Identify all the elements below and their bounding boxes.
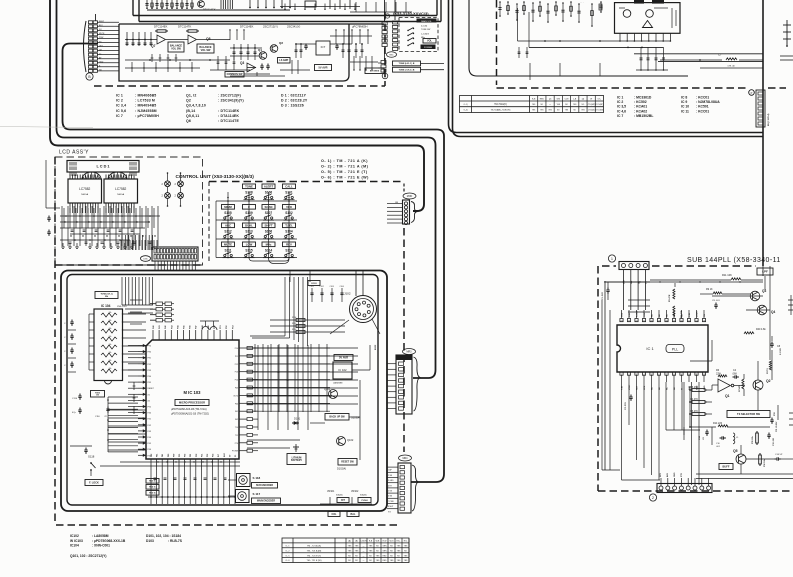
svg-text:DTC114TK: DTC114TK xyxy=(178,25,191,29)
svg-text:S 117: S 117 xyxy=(253,492,261,496)
svg-text:4-5 (B): 4-5 (B) xyxy=(421,26,427,28)
svg-text:: KC501: : KC501 xyxy=(696,105,709,109)
svg-text:GRN: GRN xyxy=(383,550,388,552)
svg-text:P11: P11 xyxy=(235,356,238,358)
svg-text:K-OUT: K-OUT xyxy=(637,310,639,317)
svg-text:O-4): O-4) xyxy=(464,110,468,112)
svg-text:O- 1) : TM - 721 A (K): O- 1) : TM - 721 A (K) xyxy=(321,159,368,163)
svg-text:IC 9: IC 9 xyxy=(681,100,687,104)
svg-text:J102: J102 xyxy=(344,292,351,296)
svg-text:: RLB-7S: : RLB-7S xyxy=(168,539,183,543)
svg-text:TONE SW: TONE SW xyxy=(421,29,430,31)
svg-text:10k: 10k xyxy=(109,328,112,330)
svg-text:P81: P81 xyxy=(148,358,151,360)
svg-text:B103: B103 xyxy=(375,344,377,350)
svg-text:IC 1: IC 1 xyxy=(646,346,654,351)
svg-text:: DTC114EK: : DTC114EK xyxy=(218,109,240,113)
svg-text:: XNN-C001: : XNN-C001 xyxy=(92,544,110,548)
svg-text:R53 1k: R53 1k xyxy=(149,481,156,483)
svg-text:RIT: RIT xyxy=(341,500,345,502)
svg-text:(A): (A) xyxy=(348,540,351,543)
svg-text:.068: .068 xyxy=(732,373,737,376)
svg-text:: NJM4558M: : NJM4558M xyxy=(135,109,157,113)
svg-text:: MN4094B5: : MN4094B5 xyxy=(135,104,156,108)
svg-text:B5 (7-620-4): B5 (7-620-4) xyxy=(767,113,770,126)
svg-text:Q1: Q1 xyxy=(258,48,262,52)
svg-text:3 GND: 3 GND xyxy=(388,480,394,482)
svg-text:10k: 10k xyxy=(109,352,112,354)
svg-text:21: 21 xyxy=(643,320,645,322)
svg-text:AFO: AFO xyxy=(99,24,103,27)
svg-text:GM: GM xyxy=(557,99,561,101)
svg-text:: LA8058M: : LA8058M xyxy=(92,534,109,538)
svg-text:R9 1K: R9 1K xyxy=(706,288,713,291)
svg-text:MOD: MOD xyxy=(407,195,413,198)
svg-text:C103: C103 xyxy=(330,286,334,288)
svg-text:IC 10: IC 10 xyxy=(681,105,689,109)
svg-text:P10: P10 xyxy=(235,348,238,350)
svg-text:P32: P32 xyxy=(207,454,209,457)
svg-text:W: W xyxy=(590,99,592,101)
svg-text:RG-: RG- xyxy=(404,541,408,543)
svg-text:O-1): O-1) xyxy=(464,104,468,106)
svg-text:20: 20 xyxy=(651,320,653,322)
svg-text:R16 10k: R16 10k xyxy=(764,459,766,467)
svg-text:PSW: PSW xyxy=(99,37,104,39)
svg-text:13: 13 xyxy=(703,320,705,322)
svg-text:D101: D101 xyxy=(294,417,301,421)
svg-text:: MC3361D: : MC3361D xyxy=(634,96,652,100)
svg-text:R14 220: R14 220 xyxy=(713,422,723,425)
svg-text:D 1 : 02CZ11Y: D 1 : 02CZ11Y xyxy=(281,94,307,98)
svg-text:: KCA01: : KCA01 xyxy=(634,105,647,109)
svg-text:F01: F01 xyxy=(235,411,238,413)
svg-text:GRN: GRN xyxy=(383,546,388,548)
svg-text:50k(B): 50k(B) xyxy=(336,495,343,497)
svg-text:: µPD75G068-XXX-1B: : µPD75G068-XXX-1B xyxy=(92,539,126,543)
svg-text:SUB ENCODER: SUB ENCODER xyxy=(256,485,273,487)
svg-text:24: 24 xyxy=(621,320,623,322)
svg-text:(B): (B) xyxy=(355,541,358,543)
svg-text:C1 .022: C1 .022 xyxy=(602,292,604,300)
svg-text:K-IN: K-IN xyxy=(629,312,631,317)
svg-text:LTY-3(B): LTY-3(B) xyxy=(588,110,595,112)
svg-text:18: 18 xyxy=(666,320,668,322)
svg-text:µPC78M05H: µPC78M05H xyxy=(352,25,367,29)
svg-text:LTY-57(W): LTY-57(W) xyxy=(595,110,603,112)
svg-text:P33: P33 xyxy=(213,454,215,457)
svg-text:: NJM78L08UA: : NJM78L08UA xyxy=(696,100,720,104)
svg-text:P14: P14 xyxy=(235,380,238,382)
svg-text:MR4: MR4 xyxy=(402,457,408,460)
svg-text:TM-721A(K): TM-721A(K) xyxy=(494,103,507,106)
svg-text:VFO: VFO xyxy=(286,205,293,209)
svg-text:MR3: MR3 xyxy=(406,351,412,354)
svg-text:IC 11: IC 11 xyxy=(681,109,689,113)
svg-text:P82: P82 xyxy=(148,364,151,366)
svg-text:P42: P42 xyxy=(148,425,151,427)
svg-text:R1 47K: R1 47K xyxy=(668,294,671,302)
svg-text:10k: 10k xyxy=(109,344,112,346)
svg-text:IC 4,6: IC 4,6 xyxy=(617,109,626,113)
svg-text:IC 1: IC 1 xyxy=(116,94,123,98)
svg-text:LA8058M: LA8058M xyxy=(333,382,343,385)
svg-text:C14 5P: C14 5P xyxy=(775,454,783,456)
svg-text:50k(B): 50k(B) xyxy=(360,495,367,497)
svg-text:Q3,4,7,8,10: Q3,4,7,8,10 xyxy=(186,104,206,108)
svg-text:M IC 103: M IC 103 xyxy=(184,390,202,395)
svg-text:X1: X1 xyxy=(148,394,150,396)
svg-text:S103(4): S103(4) xyxy=(351,416,360,420)
svg-text:Q2: Q2 xyxy=(186,99,191,103)
svg-text:Q4: Q4 xyxy=(771,310,775,314)
svg-text:XNN-C001: XNN-C001 xyxy=(117,306,128,308)
svg-text:LC7582: LC7582 xyxy=(115,187,126,191)
svg-text:2: 2 xyxy=(652,496,654,500)
svg-text:µPD75G068(A)021-1B (TM-721E): µPD75G068(A)021-1B (TM-721E) xyxy=(171,413,209,416)
svg-text:F00: F00 xyxy=(235,403,238,405)
svg-text:P44: P44 xyxy=(148,437,151,439)
svg-text:P01: P01 xyxy=(179,454,181,457)
svg-text:TM - 721 A (K): TM - 721 A (K) xyxy=(307,545,321,548)
svg-text:C101: C101 xyxy=(310,286,314,288)
svg-text:Q8: Q8 xyxy=(206,37,211,41)
svg-text:L C D 1: L C D 1 xyxy=(96,165,109,169)
svg-text:IC7: IC7 xyxy=(321,45,326,49)
svg-text:P90: P90 xyxy=(148,346,151,348)
svg-text:DTC114EK: DTC114EK xyxy=(240,25,254,29)
svg-text:TM - 721 A (M): TM - 721 A (M) xyxy=(307,549,322,552)
svg-text:VR101: VR101 xyxy=(327,490,335,493)
svg-text:X0: X0 xyxy=(229,455,231,457)
svg-text:TONE: TONE xyxy=(245,184,253,188)
svg-text:P31: P31 xyxy=(201,454,203,457)
svg-text:IC 2: IC 2 xyxy=(617,100,623,104)
svg-text:S 118: S 118 xyxy=(253,476,261,480)
svg-text:MAIN VOL: MAIN VOL xyxy=(421,20,432,23)
svg-text:P00: P00 xyxy=(173,454,175,457)
svg-text:P30: P30 xyxy=(196,454,198,457)
svg-text:VREF: VREF xyxy=(629,384,631,390)
svg-text:C7: C7 xyxy=(718,53,722,57)
svg-text:R17 0: R17 0 xyxy=(767,368,769,374)
svg-text:D102(4): D102(4) xyxy=(337,468,346,471)
svg-text:1-2 (B) B: 1-2 (B) B xyxy=(421,34,430,36)
svg-text:O- 2) : TM - 721 A (M): O- 2) : TM - 721 A (M) xyxy=(321,165,369,169)
svg-text:µPD75G068-A03-1B (TM-721A): µPD75G068-A03-1B (TM-721A) xyxy=(171,408,207,411)
svg-text:22: 22 xyxy=(636,320,638,322)
svg-text:(4): (4) xyxy=(582,99,585,101)
svg-text:IC 1: IC 1 xyxy=(617,96,623,100)
svg-text:C9 .001: C9 .001 xyxy=(712,300,720,302)
svg-text:Q2: Q2 xyxy=(279,41,283,45)
svg-text:P45: P45 xyxy=(148,443,151,445)
svg-text:: KCA02: : KCA02 xyxy=(634,109,647,113)
svg-text:6 5M: 6 5M xyxy=(388,496,392,498)
svg-text:Q5: Q5 xyxy=(733,449,738,453)
svg-text:: MN4066B5: : MN4066B5 xyxy=(135,94,156,98)
svg-text:P63: P63 xyxy=(168,454,170,457)
svg-text:P12: P12 xyxy=(235,364,238,366)
svg-text:P02: P02 xyxy=(185,454,187,457)
svg-text:P13: P13 xyxy=(235,372,238,374)
svg-text:MAIN ENCODER: MAIN ENCODER xyxy=(257,500,275,503)
svg-text:8 MUT: 8 MUT xyxy=(388,506,394,508)
svg-text:C104: C104 xyxy=(340,286,344,288)
svg-text:W IC103: W IC103 xyxy=(70,539,83,543)
svg-text:. . .: . . . xyxy=(580,1,584,4)
svg-text:CRE: CRE xyxy=(644,385,646,390)
svg-text:IC 3,4: IC 3,4 xyxy=(116,104,126,108)
svg-text:R40 4.8k: R40 4.8k xyxy=(756,328,766,331)
svg-text:Q102: Q102 xyxy=(347,438,354,442)
svg-text:VOL: VOL xyxy=(427,40,432,43)
svg-text:DTC114EK: DTC114EK xyxy=(154,25,168,29)
svg-text:178 .40: 178 .40 xyxy=(727,66,735,68)
svg-text:C13 .001: C13 .001 xyxy=(773,437,775,446)
svg-text:NM-5A: NM-5A xyxy=(81,193,88,196)
svg-text:EX SW B: EX SW B xyxy=(370,71,380,73)
svg-text:: KCC01: : KCC01 xyxy=(696,96,709,100)
svg-text:Q1: Q1 xyxy=(725,394,730,398)
svg-text:S118: S118 xyxy=(88,455,95,459)
svg-text:RESET: RESET xyxy=(148,388,155,390)
svg-text:BAL: BAL xyxy=(351,513,356,516)
svg-text:: DTA114EK: : DTA114EK xyxy=(218,114,239,118)
svg-text:R54 1k: R54 1k xyxy=(149,486,156,489)
svg-text:: MB1502BL: : MB1502BL xyxy=(634,114,653,118)
svg-text:P84: P84 xyxy=(148,376,151,378)
svg-text:MUTE: MUTE xyxy=(99,33,105,35)
svg-text:LCD ASS'Y: LCD ASS'Y xyxy=(59,150,89,156)
svg-text:2SC2712(Y): 2SC2712(Y) xyxy=(263,25,278,29)
svg-text:IC104: IC104 xyxy=(70,544,79,548)
svg-text:MICRO PROCESSOR: MICRO PROCESSOR xyxy=(179,400,205,404)
svg-text:ALERT: ALERT xyxy=(264,184,274,188)
svg-text:LTY-5(MP): LTY-5(MP) xyxy=(595,104,603,106)
svg-text:P92: P92 xyxy=(148,407,151,409)
svg-text:1M: 1M xyxy=(96,395,99,397)
svg-text:PLL: PLL xyxy=(672,348,678,352)
svg-text:14: 14 xyxy=(696,320,698,322)
svg-text:TM - 721 E (T): TM - 721 E (T) xyxy=(307,555,321,557)
svg-text:(B,14: (B,14 xyxy=(186,109,195,113)
svg-text:P: P xyxy=(751,91,753,95)
svg-text:TX SELECTOR SW: TX SELECTOR SW xyxy=(737,412,761,416)
svg-text:NM-5A: NM-5A xyxy=(117,193,124,196)
svg-text:5V AVR: 5V AVR xyxy=(318,65,327,69)
svg-text:DTA114EK: DTA114EK xyxy=(203,8,216,12)
svg-text:19: 19 xyxy=(658,320,660,322)
svg-text:D103: D103 xyxy=(311,283,317,285)
svg-text:F03: F03 xyxy=(235,388,238,390)
svg-text:D103: D103 xyxy=(146,539,154,543)
svg-text:P85: P85 xyxy=(148,382,151,384)
svg-text:: 2SC341(9)(Y): : 2SC341(9)(Y) xyxy=(218,99,244,103)
svg-text:MIC: MIC xyxy=(389,55,393,57)
svg-text:F02: F02 xyxy=(235,419,238,421)
svg-text:C-MOS: C-MOS xyxy=(360,541,367,543)
svg-text:C110: C110 xyxy=(72,398,78,400)
svg-text:R-W: R-W xyxy=(383,541,387,543)
svg-text:P46: P46 xyxy=(148,449,151,451)
svg-text:(2): (2) xyxy=(549,99,552,101)
svg-text:PUSH: PUSH xyxy=(361,500,367,502)
svg-text:10k: 10k xyxy=(109,320,112,322)
svg-text:F-IN: F-IN xyxy=(622,386,624,390)
svg-text:TONE ( CH-1 ) B: TONE ( CH-1 ) B xyxy=(399,69,415,71)
svg-text:O- 5) : TM - 721 E (T): O- 5) : TM - 721 E (T) xyxy=(321,170,368,174)
svg-text:OUT4: OUT4 xyxy=(233,395,238,397)
svg-text:BUFF: BUFF xyxy=(723,464,730,468)
svg-text:IC 8: IC 8 xyxy=(681,96,687,100)
svg-text:: LC7533 M: : LC7533 M xyxy=(135,99,155,103)
svg-text:BATTERY: BATTERY xyxy=(291,459,302,462)
svg-text:D101, 102, 104 : 1S184: D101, 102, 104 : 1S184 xyxy=(146,534,181,538)
svg-text:7 PSW: 7 PSW xyxy=(388,501,394,503)
svg-text:F. LOCK: F. LOCK xyxy=(89,481,99,484)
svg-text:RESET SW: RESET SW xyxy=(341,461,354,464)
svg-text:IC 2: IC 2 xyxy=(116,99,123,103)
svg-text:SUB 144PLL (X58-3340-11: SUB 144PLL (X58-3340-11 xyxy=(687,257,781,264)
svg-text:LTY-2(MP): LTY-2(MP) xyxy=(587,104,595,106)
svg-text:TM - 721 E (W): TM - 721 E (W) xyxy=(307,560,322,562)
svg-text:VOL SW: VOL SW xyxy=(201,49,211,52)
svg-text:GND: GND xyxy=(674,472,676,477)
svg-text:Q6: Q6 xyxy=(186,119,191,123)
svg-text:W-G: W-G xyxy=(390,541,394,543)
svg-text:Q1, l2: Q1, l2 xyxy=(186,94,196,98)
svg-text:: DTC114TE: : DTC114TE xyxy=(218,119,239,123)
svg-text:LOCK: LOCK xyxy=(697,311,699,317)
svg-text:P41: P41 xyxy=(148,419,151,421)
svg-text:P40: P40 xyxy=(148,413,151,415)
svg-text:PTONE: PTONE xyxy=(232,451,239,453)
svg-text:: 2SC2712(F): : 2SC2712(F) xyxy=(218,94,241,98)
svg-text:T10: T10 xyxy=(235,427,238,429)
svg-text:Q3: Q3 xyxy=(240,61,244,65)
svg-text:P80: P80 xyxy=(148,352,151,354)
svg-text:Q101: Q101 xyxy=(324,387,331,391)
svg-text:X2: X2 xyxy=(148,400,150,402)
svg-text:17: 17 xyxy=(673,320,675,322)
svg-text:C2 .001: C2 .001 xyxy=(625,402,627,410)
svg-text:C102: C102 xyxy=(320,286,324,288)
svg-text:15: 15 xyxy=(688,320,690,322)
svg-text:LC7582: LC7582 xyxy=(79,187,90,191)
svg-text:P-IN: P-IN xyxy=(689,312,691,317)
svg-text:5M: 5M xyxy=(99,49,102,51)
svg-text:Q2: Q2 xyxy=(766,379,771,383)
svg-text:Q3: Q3 xyxy=(762,289,766,293)
svg-text:IC 7: IC 7 xyxy=(116,114,123,118)
svg-text:IC102: IC102 xyxy=(70,534,79,538)
svg-text:10k: 10k xyxy=(109,360,112,362)
svg-text:P62: P62 xyxy=(162,454,164,457)
svg-text:P03: P03 xyxy=(190,454,192,457)
svg-text:P43: P43 xyxy=(148,431,151,433)
svg-text:COL: COL xyxy=(331,513,337,516)
svg-text:RED: RED xyxy=(540,99,545,101)
svg-text:GND: GND xyxy=(99,62,104,64)
svg-text:TONE (L/O-1 ) B: TONE (L/O-1 ) B xyxy=(399,63,415,65)
svg-text:LS AMP: LS AMP xyxy=(279,59,288,62)
svg-text:CALL: CALL xyxy=(285,184,293,188)
svg-text:IC 102: IC 102 xyxy=(338,368,347,372)
svg-text:D 3 : 1SS226: D 3 : 1SS226 xyxy=(281,104,304,108)
svg-text:IC 104: IC 104 xyxy=(101,304,111,308)
svg-text:: µPC78M05H: : µPC78M05H xyxy=(135,114,159,118)
svg-text:IC 5,6: IC 5,6 xyxy=(116,109,126,113)
svg-text:R15 22k: R15 22k xyxy=(752,436,754,444)
svg-text:VOL SW: VOL SW xyxy=(171,47,181,50)
svg-text:R55 1k: R55 1k xyxy=(149,493,156,495)
svg-text:P60: P60 xyxy=(151,454,153,457)
svg-text:1: 1 xyxy=(611,257,613,261)
svg-text:VR102: VR102 xyxy=(351,490,359,493)
svg-text:VDD: VDD xyxy=(622,312,624,317)
svg-text:CONTROL UNIT (X53-3130-XX)(B: CONTROL UNIT (X53-3130-XX)(B/3) xyxy=(176,174,255,179)
svg-text:TM-721A(M),-721E(T,W): TM-721A(M),-721E(T,W) xyxy=(491,109,511,112)
svg-text:IC 3,5: IC 3,5 xyxy=(617,105,626,109)
svg-text:COMMON SW: COMMON SW xyxy=(227,73,243,76)
svg-text:: KC502: : KC502 xyxy=(634,100,647,104)
svg-text:R7 47K: R7 47K xyxy=(738,384,741,392)
svg-text:X1: X1 xyxy=(235,455,237,457)
svg-text:10k: 10k xyxy=(109,336,112,338)
svg-text:23: 23 xyxy=(628,320,630,322)
svg-text:P61: P61 xyxy=(157,454,159,457)
svg-text:16: 16 xyxy=(681,320,683,322)
svg-text:2SC341(Y): 2SC341(Y) xyxy=(287,25,300,29)
svg-text:D 2 : 02CZ8.2Y: D 2 : 02CZ8.2Y xyxy=(281,99,308,103)
svg-text:T11: T11 xyxy=(235,435,238,437)
svg-text:P70: P70 xyxy=(235,443,238,445)
svg-text:C11 .05 20V: C11 .05 20V xyxy=(776,421,778,432)
svg-text:10k: 10k xyxy=(109,368,112,370)
svg-text:: KCC01: : KCC01 xyxy=(696,109,709,113)
svg-text:IC 7: IC 7 xyxy=(617,114,623,118)
svg-text:2.2 50V: 2.2 50V xyxy=(780,347,782,355)
svg-text:BEEP: BEEP xyxy=(99,21,105,23)
svg-text:10k: 10k xyxy=(109,312,112,314)
svg-text:Q5,6,11: Q5,6,11 xyxy=(186,114,199,118)
svg-text:P83: P83 xyxy=(148,370,151,372)
svg-text:O- 6) : TM - 721 E (W): O- 6) : TM - 721 E (W) xyxy=(321,176,369,180)
svg-text:R11 10K: R11 10K xyxy=(722,273,732,277)
svg-text:Q101, 102 : 2SC2712(Y): Q101, 102 : 2SC2712(Y) xyxy=(70,554,106,558)
svg-text:POWER: POWER xyxy=(424,47,433,49)
svg-text:BACK UP SW: BACK UP SW xyxy=(329,416,345,419)
